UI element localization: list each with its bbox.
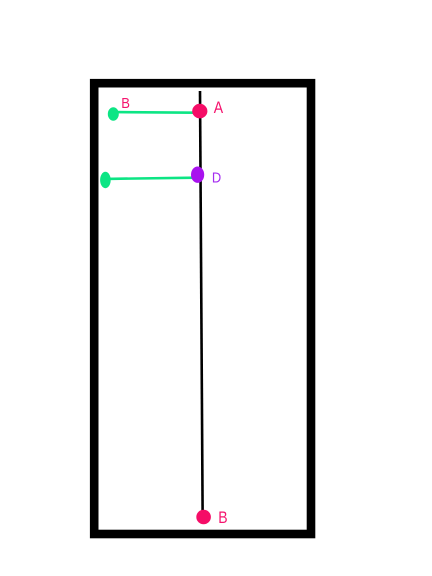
frame border — [94, 83, 311, 534]
wire segment B to A — [115, 111, 195, 114]
wire vertical segment — [200, 91, 203, 511]
svg-text:A: A — [214, 99, 224, 117]
node B (green point, top-left) — [108, 107, 119, 120]
svg-text:B: B — [121, 95, 130, 111]
label A — [214, 99, 224, 117]
wire segment to D — [106, 178, 196, 179]
label B (bottom) — [218, 509, 227, 527]
node A (pink point) — [192, 104, 207, 119]
label B (top-left) — [121, 95, 130, 111]
svg-text:B: B — [218, 509, 227, 527]
node D (purple point) — [191, 167, 204, 183]
node B (pink point, bottom) — [196, 510, 211, 524]
svg-text:D: D — [212, 168, 221, 185]
label D — [212, 168, 221, 185]
node (green point, middle-left) — [100, 172, 111, 188]
